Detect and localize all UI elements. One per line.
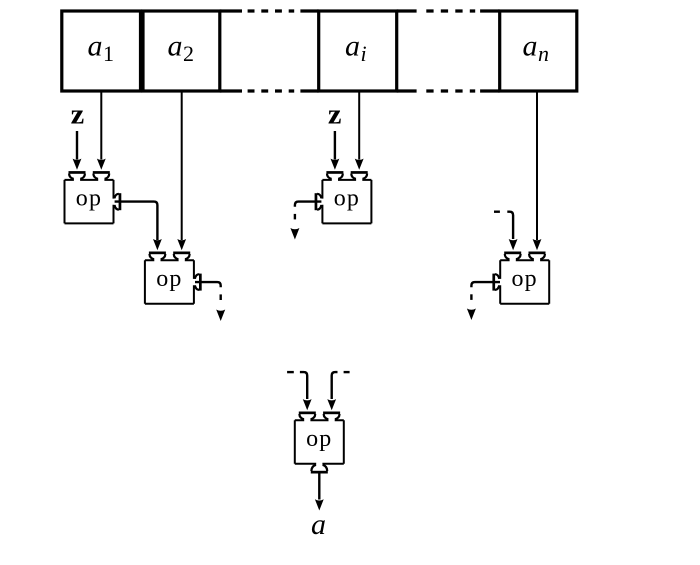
arrow OP5 output to a [315, 473, 324, 510]
box ai [319, 11, 397, 91]
svg-text:op: op [76, 186, 102, 212]
svg-text:a: a [523, 30, 538, 63]
svg-text:2: 2 [183, 41, 194, 66]
box a2 [143, 11, 220, 91]
svg-text:op: op [334, 186, 360, 212]
svg-text:a: a [168, 30, 183, 63]
dashed wire into OP5 right input [327, 372, 349, 410]
dashed arrow OP4 output [467, 282, 500, 320]
label a2 [168, 30, 195, 66]
svg-text:op: op [511, 266, 537, 292]
wire ai to OP3 [355, 93, 364, 170]
wire a2 to OP2 [177, 93, 186, 251]
label ai [345, 30, 367, 66]
label a1 [88, 30, 115, 66]
dashed wire into OP5 left input [287, 372, 312, 410]
svg-text:op: op [306, 426, 332, 452]
box an [500, 11, 577, 91]
box a1 [62, 11, 141, 91]
label an [523, 30, 550, 66]
wire an to OP4 [533, 93, 542, 251]
svg-text:1: 1 [103, 41, 114, 66]
dashed arrow OP2 output [195, 282, 225, 321]
op-box OP3 [315, 171, 372, 223]
svg-text:i: i [361, 41, 367, 66]
wire top edge between a2 and ai [220, 9, 242, 12]
wire bottom edge between ai and an [397, 89, 417, 92]
op-box OP4 [492, 252, 549, 304]
svg-text:a: a [88, 30, 103, 63]
svg-text:z: z [328, 99, 342, 131]
wire bottom edge between a2 and ai [220, 89, 242, 92]
arrow z into OP3 [331, 131, 340, 170]
op-box OP2 [145, 252, 202, 304]
svg-text:a: a [311, 508, 326, 541]
wire a1 to OP1 [97, 93, 106, 170]
wire top edge between ai and an [397, 9, 417, 12]
svg-text:n: n [538, 41, 549, 66]
op-box OP1 [65, 171, 122, 223]
arrow z into OP1 [73, 131, 82, 170]
wire OP1 output to OP2 [115, 202, 162, 251]
svg-text:z: z [71, 99, 85, 131]
dashed wire into OP4 left input [494, 212, 518, 251]
dashed arrow OP3 output [290, 202, 321, 240]
op-box OP5 [295, 412, 344, 474]
svg-text:a: a [345, 30, 360, 63]
svg-text:op: op [156, 266, 182, 292]
